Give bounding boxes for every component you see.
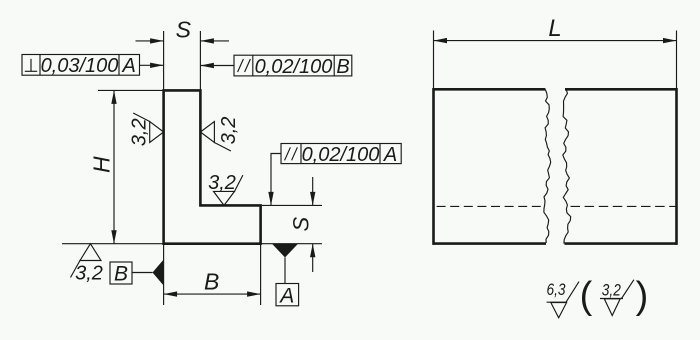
svg-text:H: H xyxy=(88,156,114,173)
svg-text:0,03/100: 0,03/100 xyxy=(41,55,119,77)
svg-text:A: A xyxy=(122,55,136,77)
svg-text:B: B xyxy=(204,269,219,295)
svg-text:3,2: 3,2 xyxy=(129,118,151,146)
svg-text:L: L xyxy=(548,15,561,42)
svg-text:A: A xyxy=(278,284,294,307)
svg-text:(: ( xyxy=(580,275,593,317)
svg-text:6,3: 6,3 xyxy=(547,280,566,299)
svg-text:B: B xyxy=(336,56,349,78)
svg-text:3,2: 3,2 xyxy=(602,281,621,300)
svg-text:3,2: 3,2 xyxy=(208,172,236,194)
svg-text:B: B xyxy=(114,263,128,286)
svg-text:3,2: 3,2 xyxy=(75,262,103,284)
svg-text:S: S xyxy=(176,17,192,43)
svg-text:0,02/100: 0,02/100 xyxy=(255,56,333,78)
svg-text:3,2: 3,2 xyxy=(218,117,240,145)
svg-text:A: A xyxy=(383,144,397,166)
svg-text:0,02/100: 0,02/100 xyxy=(302,144,380,166)
svg-text:): ) xyxy=(636,275,649,317)
svg-text:S: S xyxy=(289,216,314,231)
